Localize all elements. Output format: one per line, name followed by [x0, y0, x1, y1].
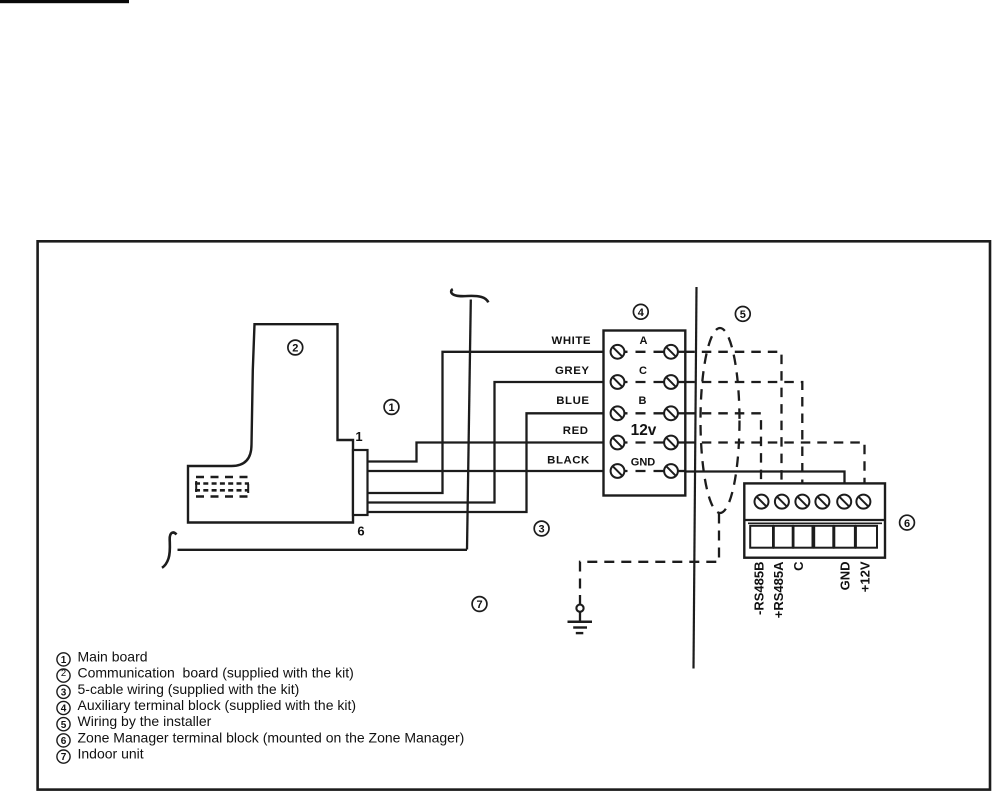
svg-text:4: 4	[61, 704, 67, 715]
svg-text:7: 7	[476, 599, 482, 611]
row 12v dash link	[618, 441, 672, 443]
circled 5 wiring by installer	[735, 307, 750, 322]
svg-text:7: 7	[61, 752, 67, 763]
svg-text:WHITE: WHITE	[552, 335, 591, 347]
right stubs from screws to block edge	[671, 352, 685, 471]
wire pin5 to B row (BLUE)	[368, 413, 604, 512]
communication board U2 outline	[188, 324, 353, 522]
circled 1 main board	[384, 400, 399, 415]
legend item 1	[57, 648, 148, 666]
svg-text:Wiring by the installer: Wiring by the installer	[78, 713, 212, 729]
svg-text:C: C	[791, 561, 806, 571]
U6 divider line	[744, 519, 885, 521]
row B dash link	[618, 412, 672, 414]
connector block pins 1-6	[353, 450, 368, 515]
earth stem	[579, 612, 581, 622]
dashed wire 12v row to screw6 of U6	[685, 443, 864, 495]
header bar (top-left black strip)	[0, 0, 129, 3]
svg-text:3: 3	[539, 524, 545, 536]
row A dash link	[618, 351, 672, 353]
svg-text:5-cable wiring (supplied with: 5-cable wiring (supplied with the kit)	[78, 681, 300, 697]
circled 7 indoor unit	[472, 597, 487, 612]
indoor unit boundary: top squiggle	[451, 289, 488, 302]
svg-text:1: 1	[388, 402, 394, 414]
dashed wire C row to screw3 of U6	[685, 382, 802, 494]
svg-text:RED: RED	[563, 425, 589, 437]
svg-text:4: 4	[638, 307, 645, 319]
svg-text:C: C	[639, 365, 647, 377]
svg-text:5: 5	[740, 309, 746, 321]
wire pin1 to RED row	[368, 443, 604, 462]
svg-text:Zone Manager terminal block (m: Zone Manager terminal block (mounted on …	[78, 729, 465, 745]
svg-text:Main board: Main board	[78, 648, 148, 664]
svg-text:Communication board (supplied: Communication board (supplied with the k…	[78, 665, 354, 681]
svg-text:Auxiliary terminal block (supp: Auxiliary terminal block (supplied with …	[78, 697, 357, 713]
frame border of figure	[38, 241, 990, 789]
circled 6 zone manager block	[900, 515, 915, 530]
svg-text:5: 5	[61, 720, 67, 731]
earth bars	[568, 621, 593, 624]
U6 screws	[755, 495, 871, 509]
svg-text:Indoor unit: Indoor unit	[78, 746, 144, 762]
svg-text:6: 6	[904, 518, 910, 530]
svg-text:BLACK: BLACK	[547, 455, 590, 467]
circled 4 aux terminal block	[633, 304, 648, 319]
row C dash link	[618, 381, 672, 383]
svg-text:1: 1	[61, 655, 67, 666]
svg-text:A: A	[640, 335, 648, 347]
svg-text:6: 6	[61, 736, 67, 747]
auxiliary terminal block U4	[604, 331, 686, 496]
svg-text:2: 2	[292, 343, 298, 355]
solid wire GND row to screw5 of U6	[685, 472, 844, 495]
legend item 2	[57, 665, 354, 683]
svg-text:1: 1	[355, 429, 362, 444]
svg-text:BLUE: BLUE	[556, 395, 589, 407]
svg-text:2: 2	[61, 668, 66, 679]
circled 3 cable wiring	[534, 521, 549, 536]
svg-text:GREY: GREY	[555, 365, 589, 377]
legend item 5	[57, 713, 212, 731]
circled 2 communication board	[288, 340, 303, 355]
separator line (zone manager wall)	[694, 287, 697, 669]
svg-text:GND: GND	[631, 457, 656, 469]
screws of U4	[611, 345, 678, 478]
row GND dash link	[618, 470, 672, 472]
legend item 7	[57, 746, 144, 764]
dashed earth wire from ellipse tail to ground	[580, 514, 719, 595]
U6 cage squares	[750, 526, 877, 548]
indoor unit boundary: left squiggle	[162, 533, 177, 568]
svg-text:+12V: +12V	[858, 561, 873, 592]
dashed connector rows inside board	[195, 477, 249, 497]
earth terminal circle	[576, 605, 583, 612]
wire pin4 to C row (GREY)	[368, 382, 604, 503]
zone manager terminal block U6	[744, 483, 885, 557]
svg-text:B: B	[639, 395, 647, 407]
dashed wire A row to screw2 of U6	[685, 352, 781, 495]
svg-text:-RS485B: -RS485B	[751, 562, 766, 615]
legend item 3	[57, 681, 299, 699]
dashed wire B row to screw1 of U6	[685, 413, 761, 494]
legend item 6	[57, 729, 464, 747]
svg-text:6: 6	[357, 524, 364, 539]
wire pin2 to GND row (BLACK)	[368, 470, 604, 472]
svg-text:+RS485A: +RS485A	[771, 561, 786, 618]
svg-text:3: 3	[61, 687, 67, 698]
dashed shielding ellipse	[701, 328, 740, 513]
indoor unit boundary: bottom horizontal wire	[178, 549, 468, 551]
indoor unit boundary: vertical wire	[467, 300, 471, 550]
legend item 4	[57, 697, 356, 715]
svg-text:12v: 12v	[631, 422, 657, 439]
wire pin3 to A row (WHITE)	[368, 352, 604, 493]
svg-text:GND: GND	[837, 562, 852, 591]
